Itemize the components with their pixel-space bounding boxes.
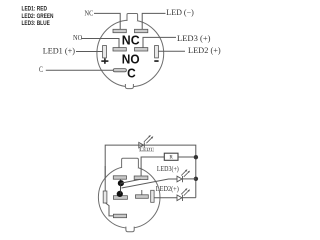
wire NC label to pin [94,13,120,29]
pin LED1(+) schematic [103,191,107,203]
pin NC left terminal [113,29,126,32]
wire hook LED1(+) pin to C pin [106,203,114,216]
pin NC left schematic [113,176,126,179]
LED D2 diode symbol [177,195,183,201]
LED D1 diode symbol [139,142,145,148]
wire LED1 supply loop [105,145,196,198]
pin C terminal [113,69,126,72]
pin LED1(+) terminal [103,46,107,58]
pin LED(-) schematic [134,176,148,180]
switch S1 schematic bottom notch [126,227,134,232]
LED D1 label box [139,148,153,152]
wire LED2(+) label to pin [158,50,185,52]
wire LED(-) label to pin [142,13,165,29]
wire between contact dots [120,183,122,194]
svg-text:LED2 (+): LED2 (+) [188,46,221,55]
svg-text:LED1: RED: LED1: RED [22,6,48,13]
svg-text:LED3: BLUE: LED3: BLUE [22,20,51,27]
svg-text:LED1: LED1 [140,148,154,153]
wire contact arm to LED(-) pin [121,179,141,183]
switch S1 schematic keyway tab [122,158,139,168]
svg-text:LED3(+): LED3(+) [157,165,179,173]
pin LED3(+) terminal [135,48,148,51]
svg-text:C: C [127,65,136,80]
pin C schematic [113,214,126,218]
svg-text:LED2: GREEN: LED2: GREEN [22,13,54,20]
wire LED1(+) label to pin [76,51,102,53]
marking + for LED anode [101,58,108,64]
svg-text:R: R [169,155,173,161]
wire C label to pin [46,69,113,71]
svg-text:NO: NO [122,52,140,67]
pin stub NC to node [119,179,121,181]
marking - for LED cathode [154,60,158,62]
wire LED3(+) label to pin [143,37,176,47]
svg-text:NO: NO [73,34,82,42]
svg-text:LED (−): LED (−) [166,8,194,17]
pin LED3(+) schematic with stem [136,190,149,198]
wire resistor to bus [178,156,196,158]
node junction dot on bus (R branch) [194,155,198,159]
pin LED2(+) schematic [151,190,154,202]
switch S1 bottom keyway notch [125,84,133,89]
wire LED2 to bus [183,197,196,199]
svg-text:LED1 (+): LED1 (+) [43,46,76,55]
LED D2 emission arrows [181,188,190,196]
wire NO label to pin [82,39,120,48]
wire LED3 to bus [183,178,196,180]
switch S1 rear view body [97,20,164,87]
pin NO left schematic [113,196,127,200]
node contact dot lower [117,191,123,197]
svg-text:LED3 (+): LED3 (+) [177,34,211,43]
node contact dot upper [118,180,124,186]
LED D3 emission arrows [181,169,190,177]
resistor R body [164,153,178,160]
wire loop into LED1(+) pin [104,166,106,191]
wire LED2 branch from pin [154,197,177,199]
svg-text:NC: NC [122,32,140,47]
switch S1 top keyway tab [127,14,138,22]
wire resistor branch from LED(-) pin [141,157,164,176]
LED D1 emission arrows [144,135,153,143]
svg-text:NC: NC [85,9,94,17]
switch S1 schematic body [98,167,160,229]
pin NO left terminal [113,48,126,51]
pin LED(-) terminal [135,29,148,32]
svg-text:C: C [39,64,43,74]
wire LED3 branch from pin [122,179,178,188]
LED D3 diode symbol [177,176,183,182]
svg-text:LED2(+): LED2(+) [156,185,180,193]
pin LED2(+) terminal [155,46,159,58]
node junction dot on bus (LED3 branch) [194,177,198,181]
